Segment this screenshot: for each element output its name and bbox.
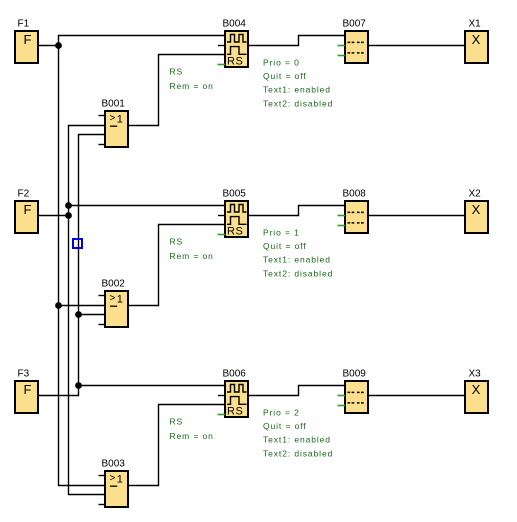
B008 P pin (green) [338,215,346,217]
B002 pin1 stub [99,295,106,297]
svg-text:RS: RS [170,237,184,247]
output block X3 [465,369,488,414]
annotation: RS / Rem (row 0) [170,67,214,91]
svg-text:F: F [24,202,32,217]
input block F2 [15,189,38,234]
junction node F3-a [75,311,82,318]
svg-text:B006: B006 [223,369,247,380]
wire B005 output to B008 input [248,206,345,216]
svg-text:F: F [24,32,32,47]
svg-text:Prio = 0: Prio = 0 [263,58,300,68]
pulse relay B005 [223,189,249,238]
wire B007 output to X1 [368,45,465,47]
svg-text:Quit = off: Quit = off [263,71,307,81]
svg-text:B001: B001 [102,99,126,110]
annotation: message params (Prio = 2) [263,408,333,459]
B009 En pin (green) [338,405,346,407]
wire B002 output to B005 R input [128,225,225,306]
B002 pin4 stub [99,324,106,326]
B008 En pin (green) [338,225,346,227]
wire node to B004 Trg input [59,36,226,46]
junction node F1-a [55,42,62,49]
svg-text:1: 1 [117,114,123,126]
svg-text:B003: B003 [102,459,126,470]
svg-text:X2: X2 [469,189,482,200]
B007 En pin (green) [338,55,346,57]
svg-text:F1: F1 [18,19,30,30]
wire F1 output to node [39,45,59,47]
svg-text:>: > [110,293,116,304]
wire B003 output to B006 R input [128,405,225,486]
annotation: RS / Rem (row 1) [170,237,214,261]
svg-text:Text1: enabled: Text1: enabled [263,85,331,95]
svg-text:>: > [110,113,116,124]
wire F2 branch to B005 Trg input [69,205,226,207]
open connection marker (blue square) [73,239,82,248]
svg-text:RS: RS [227,406,243,418]
svg-text:Rem = on: Rem = on [170,251,214,261]
output block X1 [465,19,488,64]
input block F3 [15,369,38,414]
wire F1 branch to B002 input 2 [59,305,106,307]
junction node F3-b [75,382,82,389]
svg-text:Prio = 2: Prio = 2 [263,408,300,418]
svg-text:Text1: enabled: Text1: enabled [263,435,331,445]
wire F2 output to trunk [39,215,69,217]
svg-text:Text2: disabled: Text2: disabled [263,268,333,278]
svg-text:X: X [472,32,481,47]
B001 pin1 stub [99,115,106,117]
junction node F1-b [55,302,62,309]
svg-text:RS: RS [227,226,243,238]
wire F2 trunk: B001 input 2 down to B003 input 3 [69,126,106,495]
B007 P pin (green) [338,45,346,47]
OR gate B002 [102,279,129,328]
junction node F2-b [65,212,72,219]
svg-text:Rem = on: Rem = on [170,431,214,441]
OR gate B001 [102,99,129,148]
input block F1 [15,19,38,64]
B005 Par pin (green) [218,234,226,236]
svg-text:X: X [472,202,481,217]
wire B004 output to B007 input [248,36,345,46]
wire F1 trunk down to B003 input 2 [59,46,106,486]
svg-text:Text1: enabled: Text1: enabled [263,255,331,265]
B006 Par pin (green) [218,414,226,416]
B004 Par pin (green) [218,64,226,66]
B003 pin1 stub [99,475,106,477]
wire F3 branch to B002 input 3 [79,314,106,316]
svg-text:F2: F2 [18,189,30,200]
wire F3 trunk: B001 input 3 down to F3 output [39,135,105,396]
svg-text:Text2: disabled: Text2: disabled [263,98,333,108]
svg-text:X: X [472,382,481,397]
svg-text:1: 1 [117,474,123,486]
svg-text:>: > [110,473,116,484]
svg-text:Prio = 1: Prio = 1 [263,228,300,238]
svg-text:B008: B008 [343,189,367,200]
pulse relay B004 [223,19,249,68]
annotation: message params (Prio = 1) [263,228,333,279]
svg-text:B005: B005 [223,189,247,200]
svg-text:B007: B007 [343,19,367,30]
B001 pin4 stub [99,144,106,146]
svg-text:1: 1 [117,294,123,306]
svg-text:X3: X3 [469,369,482,380]
output block X2 [465,189,488,234]
svg-text:F3: F3 [18,369,30,380]
svg-text:X1: X1 [469,19,482,30]
svg-text:RS: RS [170,417,184,427]
wire F3 branch to B006 Trg input [79,385,226,387]
svg-text:Quit = off: Quit = off [263,241,307,251]
message text block B008 [343,189,369,234]
B004 pin2 stub [218,45,225,47]
svg-text:RS: RS [170,67,184,77]
svg-text:Text2: disabled: Text2: disabled [263,448,333,458]
svg-text:B009: B009 [343,369,367,380]
annotation: RS / Rem (row 2) [170,417,214,441]
svg-text:Rem = on: Rem = on [170,81,214,91]
svg-text:Quit = off: Quit = off [263,421,307,431]
annotation: message params (Prio = 0) [263,58,333,109]
B005 pin2 stub [218,215,225,217]
pulse relay B006 [223,369,249,418]
wire B009 output to X3 [368,395,465,397]
wire B001 output to B004 R input [128,55,225,126]
OR gate B003 [102,459,129,508]
message text block B007 [343,19,369,64]
svg-text:B002: B002 [102,279,126,290]
svg-text:B004: B004 [223,19,247,30]
B009 P pin (green) [338,395,346,397]
junction node F2-a [65,202,72,209]
svg-text:F: F [24,382,32,397]
wire B006 output to B009 input [248,386,345,396]
svg-text:RS: RS [227,56,243,68]
wire B008 output to X2 [368,215,465,217]
B003 pin4 stub [99,504,106,506]
message text block B009 [343,369,369,414]
B006 pin2 stub [218,395,225,397]
